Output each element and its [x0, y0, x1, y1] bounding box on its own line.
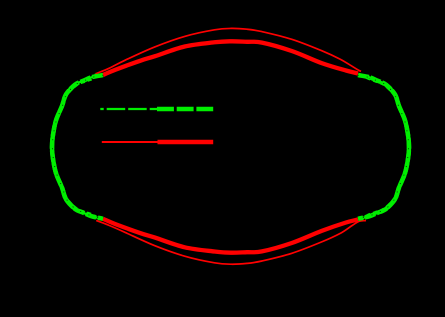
thick orbit left green dashed arc	[52, 75, 103, 219]
thick orbit right green dashed arc	[358, 75, 409, 219]
thick orbit bottom red arc	[103, 219, 358, 253]
left green arc solid middle fill	[52, 85, 75, 209]
left green arc solid core	[52, 75, 103, 219]
thick orbit top red arc	[103, 41, 358, 75]
legend: thick green dashed sample line	[157, 107, 213, 112]
thin orbit bottom red arc	[96, 220, 366, 264]
right green arc solid core	[358, 75, 409, 219]
right green arc dark speckle dots	[358, 75, 409, 218]
thin orbit left green dashed arc	[53, 74, 96, 221]
left green arc dark speckle dots	[52, 75, 103, 218]
legend: thick red solid sample line	[158, 140, 214, 145]
thin orbit top red arc	[96, 28, 362, 73]
thin orbit right green dashed arc	[360, 74, 408, 220]
right green arc solid middle fill	[386, 85, 409, 209]
legend: thin red solid sample line	[102, 141, 158, 143]
legend: thin green dashed sample line	[100, 108, 157, 110]
